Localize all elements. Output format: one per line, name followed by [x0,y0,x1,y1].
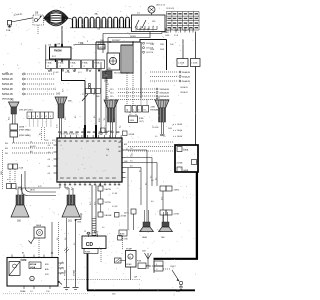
svg-text:9 K2A: 9 K2A [82,62,88,65]
svg-text:0.5 SB: 0.5 SB [112,193,118,195]
svg-text:0.5: 0.5 [132,153,134,155]
svg-text:16: 16 [84,231,86,233]
svg-text:0.75: 0.75 [63,89,65,92]
svg-text:4 B1: 4 B1 [45,140,49,142]
svg-text:7.0: 7.0 [163,136,165,138]
svg-text:24DB1: 24DB1 [130,36,136,38]
svg-text:/7: /7 [72,66,74,68]
svg-text:0.5: 0.5 [114,118,116,120]
svg-text:0.75: 0.75 [162,197,164,200]
svg-text:DA/5A: DA/5A [177,123,183,126]
svg-text:1.5: 1.5 [94,93,96,95]
svg-text:5W/DA-2B: 5W/DA-2B [2,83,13,86]
svg-text:0.5: 0.5 [75,116,77,118]
svg-text:24T4B: 24T4B [177,163,184,165]
svg-text:9 K2A: 9 K2A [46,62,52,65]
svg-text:4.0: 4.0 [48,166,51,168]
svg-text:(PWR SHAD): (PWR SHAD) [19,129,31,132]
svg-text:(RWD SHAD): (RWD SHAD) [19,134,31,137]
svg-text:185/1 2 3 4: 185/1 2 3 4 [156,5,165,7]
svg-text:DA/5A: DA/5A [177,129,183,132]
svg-text:1 101/B: 1 101/B [191,63,198,65]
svg-text:0.5: 0.5 [146,183,148,185]
svg-text:8 B1: 8 B1 [52,140,56,142]
svg-text:AOA: AOA [30,266,35,269]
svg-text:5W/DA-2B: 5W/DA-2B [160,88,170,91]
svg-text:0.75: 0.75 [67,187,69,190]
svg-text:0.5 BL: 0.5 BL [65,72,70,74]
svg-text:ILL: ILL [106,155,108,157]
svg-text:0.5: 0.5 [55,88,57,90]
svg-text:0.75: 0.75 [90,202,92,205]
svg-text:1.0: 1.0 [30,291,33,293]
svg-text:0.75: 0.75 [72,187,74,190]
svg-text:0.75: 0.75 [16,187,18,190]
svg-text:MW/DA-2 D: MW/DA-2 D [2,98,13,101]
svg-text:4.0: 4.0 [48,159,51,161]
svg-text:1.50: 1.50 [46,291,50,293]
svg-text:0.75: 0.75 [21,187,23,190]
svg-text:UA4B: UA4B [183,169,189,172]
svg-text:24B1: 24B1 [100,40,104,42]
svg-text:4.0: 4.0 [151,201,154,203]
svg-text:5W/DA-2B: 5W/DA-2B [160,95,170,98]
svg-text:W/4A-2B: W/4A-2B [182,71,191,74]
svg-text:(PRE: (PRE [139,118,144,120]
svg-text:7.0: 7.0 [130,148,133,150]
svg-text:JW/4A-2B: JW/4A-2B [180,91,188,94]
svg-text:4.0: 4.0 [102,227,104,229]
svg-text:0.75: 0.75 [38,186,42,188]
svg-text:W E2/2B: W E2/2B [98,47,106,49]
svg-text:0.5: 0.5 [127,148,129,150]
svg-text:0.5: 0.5 [40,133,42,135]
svg-text:9 K2A: 9 K2A [58,62,64,65]
svg-text:0.5: 0.5 [156,178,158,180]
svg-text:SFL: SFL [5,148,8,150]
svg-text:FUSE: FUSE [85,251,91,253]
svg-text:DA/14B: DA/14B [105,214,113,217]
svg-text:24TC: 24TC [124,213,129,215]
svg-text:24 E2/2B: 24 E2/2B [146,52,154,54]
svg-text:4.0: 4.0 [48,173,51,175]
svg-text:2.0: 2.0 [130,156,133,158]
svg-text:DA/5A: DA/5A [177,135,183,138]
svg-text:1.5: 1.5 [83,93,85,95]
svg-text:(RR/BAR): (RR/BAR) [151,109,160,112]
svg-text:4.2: 4.2 [30,151,32,153]
svg-text:0.5: 0.5 [65,118,67,120]
svg-text:2B/16: 2B/16 [1,171,3,175]
svg-text:/7: /7 [48,66,50,68]
svg-text:CD: CD [86,242,94,248]
svg-text:2400: 2400 [168,128,172,130]
svg-text:FM/DM: FM/DM [54,51,62,53]
svg-text:0.75: 0.75 [94,202,96,205]
svg-text:W E2/2A: W E2/2A [98,42,106,45]
svg-text:/7: /7 [60,66,62,68]
svg-text:7.0: 7.0 [130,161,133,163]
svg-text:6P/AS: 6P/AS [126,263,132,266]
svg-text:4.0: 4.0 [155,136,157,138]
svg-text:0.5: 0.5 [104,118,106,120]
svg-text:24T4B: 24T4B [121,216,127,218]
svg-text:2B/16: 2B/16 [30,190,35,192]
svg-text:W/4A-2B: W/4A-2B [182,76,191,79]
svg-text:24T/B: 24T/B [174,213,180,215]
svg-text:25: 25 [107,84,109,86]
svg-text:O/5D: O/5D [124,239,129,241]
svg-text:3/1A: 3/1A [6,29,11,32]
svg-text:-9A-: -9A- [94,13,98,16]
svg-text:24H/D: 24H/D [174,189,180,191]
svg-text:5W/DA-1B: 5W/DA-1B [2,93,13,96]
svg-text:24B 15B 8B 4B 31B 54B: 24B 15B 8B 4B 31B 54B [59,134,78,136]
svg-text:DR/AE: DR/AE [20,290,26,293]
svg-text:0.5: 0.5 [99,118,101,120]
svg-text:B6: B6 [22,253,24,255]
svg-text:1 101/B: 1 101/B [178,63,185,65]
svg-text:1A5: 1A5 [56,93,61,96]
svg-text:24 OHM: 24 OHM [152,127,159,129]
svg-text:DA72B: DA72B [105,188,112,191]
svg-text:7.0: 7.0 [151,180,154,182]
svg-text:JW/4A-2B: JW/4A-2B [180,86,188,89]
svg-text:OL: OL [30,141,32,143]
svg-text:23.5: 23.5 [110,96,114,98]
svg-text:A/MD: A/MD [120,233,125,236]
svg-text:0.75: 0.75 [9,117,11,120]
svg-text:24/10B: 24/10B [129,134,135,136]
svg-text:4.0: 4.0 [130,166,133,168]
svg-text:5W/DA-2B: 5W/DA-2B [2,88,13,91]
svg-text:24G: 24G [112,294,116,296]
svg-text:1981 (RT/LHD): 1981 (RT/LHD) [19,110,33,112]
svg-text:9 K2A: 9 K2A [94,62,100,65]
svg-text:1A5B: 1A5B [36,224,42,227]
svg-text:A/3D: A/3D [94,231,99,234]
svg-text:24RB: 24RB [19,127,25,129]
svg-text:/7: /7 [84,66,86,68]
svg-text:B2/2: B2/2 [52,56,56,58]
svg-text:W22DB1: W22DB1 [112,40,120,42]
svg-text:W/4A-2B: W/4A-2B [182,80,191,83]
svg-text:W/22DB: W/22DB [114,73,122,75]
svg-text:1.0: 1.0 [57,238,59,240]
svg-text:4.0 SFL: 4.0 SFL [30,146,36,148]
svg-text:ANT: ANT [124,143,127,146]
svg-text:1A5B: 1A5B [142,236,148,239]
svg-text:24: 24 [60,145,62,147]
svg-text:0.5 GR: 0.5 GR [53,72,59,74]
svg-text:0.75: 0.75 [57,125,59,129]
svg-text:19/05: 19/05 [77,222,81,224]
svg-text:5W/DA-1B: 5W/DA-1B [2,78,13,81]
svg-text:SFL: SFL [5,153,8,155]
svg-text:5W/DA-2B: 5W/DA-2B [160,92,170,95]
svg-text:9 K2A: 9 K2A [70,62,76,65]
svg-text:COM: COM [21,259,27,262]
svg-text:0.5: 0.5 [94,116,96,118]
svg-text:0.5: 0.5 [151,176,153,178]
svg-text:24C2B: 24C2B [105,202,112,204]
svg-text:OUT): OUT) [139,121,144,123]
svg-text:SFL: SFL [5,143,8,145]
svg-text:1.5: 1.5 [74,243,76,245]
svg-text:1.0: 1.0 [65,238,67,240]
svg-text:MOVA: MOVA [30,263,37,266]
svg-text:FDM: FDM [137,261,142,263]
svg-text:4.0: 4.0 [48,145,51,147]
svg-text:0.5: 0.5 [109,90,111,92]
